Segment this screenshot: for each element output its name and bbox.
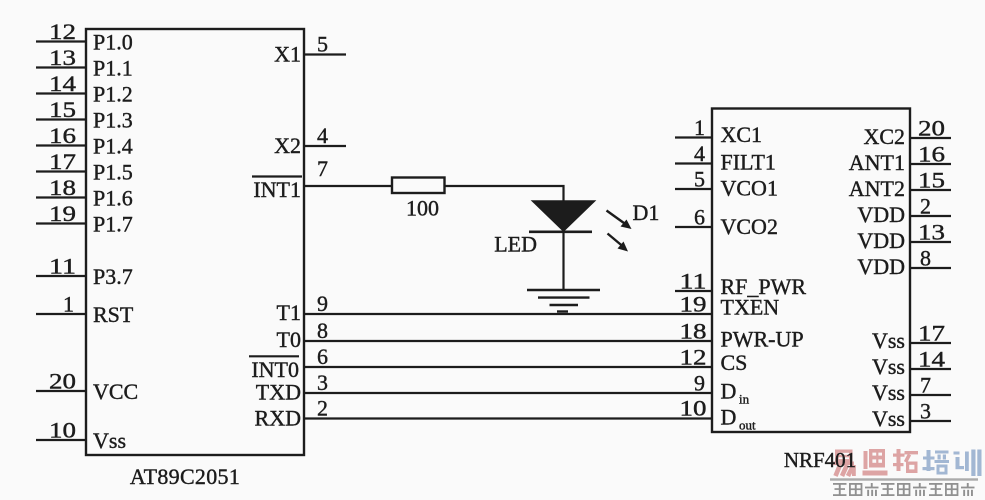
U1 pin label INT1 with overbar [252,177,302,203]
svg-text:19: 19 [49,201,76,226]
svg-text:18: 18 [49,175,76,200]
svg-text:18: 18 [680,319,707,344]
wire INT0 (U1 pin6) to CS (U2 pin12) [304,366,712,368]
svg-text:10: 10 [680,396,707,421]
U2 pin 4 stub (FILT1) [675,162,712,164]
svg-text:TXD: TXD [256,380,301,405]
U2 pin 5 stub (VCO1) [675,188,712,190]
svg-text:14: 14 [918,347,945,372]
U1 pin 18 stub (P1.6) [36,196,86,198]
U1 pin 15 stub (P1.3) [36,118,86,120]
svg-text:X2: X2 [274,133,301,158]
U2 pin 6 stub (VCO2) [675,226,712,228]
U2 pin 8 stub (VDD) [910,267,951,269]
U1 pin 17 stub (P1.5) [36,170,86,172]
watermark subtitle text (stylized small CJK) [833,483,975,496]
svg-text:VDD: VDD [857,202,905,227]
svg-text:19: 19 [680,292,707,317]
svg-text:16: 16 [918,142,945,167]
svg-text:5: 5 [317,32,330,57]
svg-text:NRF401: NRF401 [784,448,856,472]
svg-text:RXD: RXD [255,406,301,431]
svg-text:15: 15 [918,168,945,193]
U2 pin 11 stub (RF_PWR) [675,290,712,292]
U2 pin 20 stub (XC2) [910,137,951,139]
IC U2 NRF401 body [712,109,910,433]
svg-text:3: 3 [920,399,931,424]
svg-text:AT89C2051: AT89C2051 [130,464,240,489]
U2 pin 13 stub (VDD) [910,241,951,243]
U2 pin 17 stub (Vss) [910,342,951,344]
svg-text:P1.7: P1.7 [93,212,133,237]
svg-text:TXEN: TXEN [721,295,780,320]
svg-text:P1.4: P1.4 [93,134,133,159]
svg-text:5: 5 [694,167,705,192]
U2 pin 14 stub (Vss) [910,368,951,370]
U1 pin 10 stub (Vss) [36,439,86,441]
U2 pin 16 stub (ANT1) [910,163,951,165]
wire LED cathode to ground [562,232,564,290]
LED D1 triangle (anode-cathode) [533,201,595,231]
svg-text:100: 100 [406,196,439,221]
svg-text:out: out [739,418,756,433]
svg-text:8: 8 [920,246,931,271]
svg-text:T0: T0 [277,327,301,352]
U1 pin 13 stub (P1.1) [36,66,86,68]
svg-text:6: 6 [694,205,705,230]
svg-text:1: 1 [63,292,74,317]
U1 pin 11 stub (P3.7) [36,275,86,277]
svg-text:P1.3: P1.3 [93,108,133,133]
svg-text:7: 7 [317,156,330,181]
svg-text:17: 17 [49,149,76,174]
wire TXD (U1 pin3) to Din (U2 pin9) [304,392,712,394]
wire R1 to LED D1 anode (with corner) [445,186,564,202]
U1 pin 14 stub (P1.2) [36,92,86,94]
svg-text:20: 20 [918,116,945,141]
svg-text:2: 2 [317,396,330,421]
svg-text:3: 3 [317,370,330,395]
svg-text:RST: RST [93,302,134,327]
U2 pin label Dout [721,405,757,433]
resistor R1 [392,178,445,194]
svg-text:VDD: VDD [857,254,905,279]
U1 pin 16 stub (P1.4) [36,144,86,146]
U1 pin 12 stub (P1.0) [36,40,86,42]
svg-text:7: 7 [920,373,931,398]
svg-text:VDD: VDD [857,228,905,253]
svg-text:in: in [739,392,750,407]
svg-text:VCC: VCC [93,379,138,404]
svg-text:Vss: Vss [872,328,905,353]
svg-text:ANT1: ANT1 [849,150,905,175]
svg-text:14: 14 [49,71,76,96]
wire RXD (U1 pin2) to Dout (U2 pin10) [304,417,712,419]
U1 pin 20 stub (VCC) [36,390,86,392]
svg-text:11: 11 [680,269,707,294]
svg-text:LED: LED [494,232,537,257]
U1 pin 1 stub (RST) [36,313,86,315]
U1 pin 5 stub (X1) [304,53,346,55]
svg-text:16: 16 [49,123,76,148]
U2 pin 15 stub (ANT2) [910,189,951,191]
svg-text:ANT2: ANT2 [849,176,905,201]
ground symbol [527,290,600,312]
svg-text:P3.7: P3.7 [93,264,133,289]
svg-text:P1.1: P1.1 [93,56,133,81]
U1 pin 4 stub (X2) [304,145,346,147]
svg-text:D1: D1 [633,200,660,225]
U2 pin label Din [721,379,750,407]
wire U1 INT1 pin7 to resistor R1 [304,185,392,187]
svg-text:P1.2: P1.2 [93,82,133,107]
svg-text:XC1: XC1 [721,122,763,147]
svg-text:Vss: Vss [872,406,905,431]
wire T1 (U1 pin9) to TXEN (U2 pin19) [304,313,712,315]
U1 pin 19 stub (P1.7) [36,222,86,224]
svg-text:XC2: XC2 [863,124,905,149]
U1 pin label INT0 with overbar [249,356,299,382]
D1 light emission arrow 2 [608,234,629,252]
svg-text:13: 13 [918,220,945,245]
svg-text:12: 12 [680,345,707,370]
U2 pin 3 stub (Vss) [910,420,951,422]
svg-text:9: 9 [317,291,330,316]
U2 pin 2 stub (VDD) [910,215,951,217]
svg-text:P1.5: P1.5 [93,160,133,185]
svg-text:INT1: INT1 [253,177,301,202]
svg-text:Vss: Vss [93,428,126,453]
U2 pin 1 stub (XC1) [675,136,712,138]
svg-text:VCO2: VCO2 [721,214,778,239]
svg-text:D: D [721,379,737,404]
U2 pin 7 stub (Vss) [910,394,951,396]
svg-text:CS: CS [721,350,748,375]
svg-text:4: 4 [694,141,705,166]
svg-text:Vss: Vss [872,380,905,405]
svg-text:20: 20 [49,369,76,394]
svg-text:12: 12 [49,19,76,44]
IC U1 AT89C2051 body [86,29,304,455]
svg-text:10: 10 [49,418,76,443]
svg-text:T1: T1 [277,300,301,325]
svg-text:17: 17 [918,321,945,346]
svg-text:INT0: INT0 [251,357,299,382]
LED D1 cathode bar [529,231,592,234]
svg-text:11: 11 [49,254,76,279]
svg-text:15: 15 [49,97,76,122]
svg-text:VCO1: VCO1 [721,176,778,201]
svg-text:D: D [721,405,737,430]
svg-text:P1.0: P1.0 [93,30,133,55]
watermark underline rule [830,478,978,480]
svg-text:6: 6 [317,344,330,369]
svg-text:X1: X1 [274,42,301,67]
svg-text:P1.6: P1.6 [93,186,133,211]
svg-text:PWR-UP: PWR-UP [721,327,804,352]
svg-text:1: 1 [694,115,705,140]
watermark logo text (stylized CJK blocks) [833,449,982,476]
svg-text:2: 2 [920,194,931,219]
svg-text:8: 8 [317,318,330,343]
svg-text:9: 9 [694,371,705,396]
wire T0 (U1 pin8) to PWR-UP (U2 pin18) [304,340,712,342]
D1 light emission arrow 1 [607,211,632,230]
svg-text:FILT1: FILT1 [721,150,776,175]
svg-text:4: 4 [317,123,330,148]
svg-text:Vss: Vss [872,354,905,379]
svg-text:13: 13 [49,45,76,70]
